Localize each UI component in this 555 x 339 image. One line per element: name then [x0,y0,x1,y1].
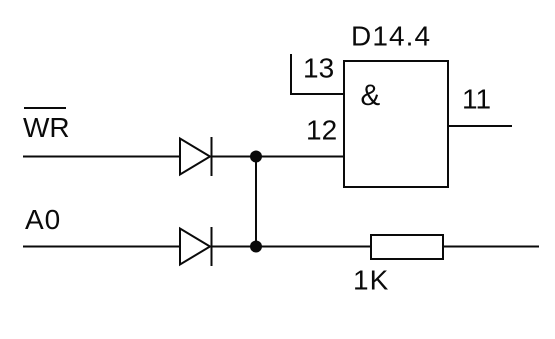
net label WR (active-low overline) [23,108,70,143]
wire vertical junction link [255,157,257,247]
resistor R1 body [371,235,443,259]
wire diode VD1 to gate pin 12 [210,156,344,158]
diode VD1 [180,137,212,176]
svg-text:D14.4: D14.4 [351,21,431,52]
svg-text:&: & [361,79,381,112]
wire gate output pin 11 [448,125,512,127]
svg-text:1K: 1K [353,265,389,296]
junction node dot upper [250,151,262,163]
wire gate pin 13 stub [291,54,344,94]
svg-text:13: 13 [303,53,334,84]
wire WR input segment [23,156,180,158]
svg-text:WR: WR [23,112,70,143]
svg-text:A0: A0 [25,204,61,235]
svg-text:11: 11 [462,84,491,115]
junction node dot lower [250,241,262,253]
wire A0 input segment [23,246,180,248]
wire diode VD2 to resistor [210,246,371,248]
op-amp / AND gate D14.4 body [344,61,448,187]
diode VD2 [180,227,212,266]
wire resistor to right edge [443,246,539,248]
svg-text:12: 12 [306,115,337,146]
